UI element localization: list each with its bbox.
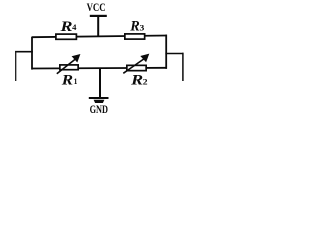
wire bottom rail (node GND) bbox=[32, 67, 167, 70]
svg-text:R: R bbox=[130, 73, 143, 89]
svg-text:2: 2 bbox=[143, 76, 148, 86]
wire left output horizontal bbox=[15, 51, 33, 53]
wire right bridge branch (node B) bbox=[165, 35, 167, 69]
wire right output terminal vertical bbox=[182, 53, 184, 81]
power symbol VCC bbox=[87, 2, 107, 17]
resistor R2 (variable, arrow) bbox=[123, 54, 149, 89]
resistor R4 bbox=[56, 19, 77, 39]
svg-text:R: R bbox=[129, 19, 140, 35]
svg-text:VCC: VCC bbox=[87, 2, 106, 14]
resistor R3 bbox=[125, 19, 145, 39]
svg-text:1: 1 bbox=[74, 76, 78, 86]
wire left output terminal vertical bbox=[15, 51, 17, 81]
resistor R1 (variable, arrow) bbox=[57, 54, 81, 88]
wire right output horizontal bbox=[165, 53, 183, 55]
wire GND stem bbox=[99, 68, 101, 99]
ground symbol GND bbox=[89, 97, 109, 116]
wire top rail (node VCC) bbox=[32, 36, 167, 38]
svg-text:3: 3 bbox=[140, 23, 145, 33]
wire left bridge branch (node A) bbox=[31, 37, 33, 70]
svg-text:GND: GND bbox=[90, 104, 108, 116]
wire VCC stem bbox=[97, 16, 99, 37]
svg-text:R: R bbox=[59, 19, 72, 35]
svg-text:R: R bbox=[61, 72, 73, 88]
